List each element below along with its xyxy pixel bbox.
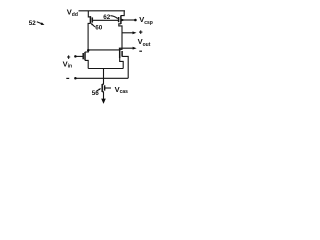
- svg-text:in: in: [68, 64, 72, 70]
- svg-text:cas: cas: [120, 89, 129, 95]
- svg-text:csp: csp: [144, 20, 153, 26]
- svg-text:60: 60: [95, 25, 103, 32]
- svg-text:52: 52: [29, 20, 37, 27]
- svg-text:out: out: [143, 42, 151, 48]
- svg-text:56: 56: [92, 90, 100, 97]
- svg-text:dd: dd: [72, 12, 78, 18]
- svg-text:62: 62: [103, 14, 111, 21]
